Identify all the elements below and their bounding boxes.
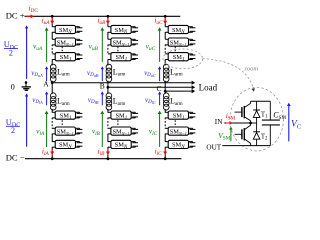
- svg-text:C: C: [157, 84, 162, 93]
- svg-text:A: A: [43, 79, 49, 88]
- svg-text:DC +: DC +: [6, 10, 25, 20]
- svg-text:B: B: [100, 82, 105, 91]
- svg-text:2: 2: [9, 48, 13, 57]
- svg-text:IN: IN: [215, 118, 223, 126]
- svg-text:0: 0: [11, 83, 15, 92]
- svg-text:OUT: OUT: [206, 144, 221, 152]
- svg-text:DC −: DC −: [6, 153, 25, 163]
- svg-text:Load: Load: [199, 83, 218, 93]
- svg-text:zoom: zoom: [243, 65, 258, 72]
- svg-text:2: 2: [11, 126, 15, 135]
